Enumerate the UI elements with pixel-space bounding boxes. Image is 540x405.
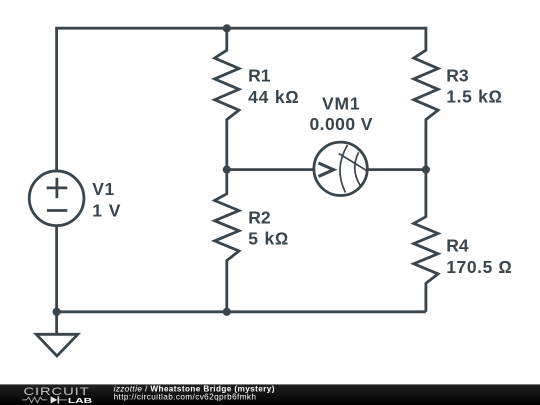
svg-text:R2: R2: [248, 208, 271, 228]
svg-text:R3: R3: [446, 65, 469, 85]
svg-text:1 V: 1 V: [92, 201, 121, 221]
svg-text:http://circuitlab.com/cv62qprb: http://circuitlab.com/cv62qprb6fmkh: [114, 393, 257, 402]
svg-text:R4: R4: [446, 236, 469, 256]
svg-text:LAB: LAB: [68, 396, 93, 405]
svg-text:VM1: VM1: [322, 94, 360, 114]
svg-text:5 kΩ: 5 kΩ: [248, 229, 289, 249]
svg-text:R1: R1: [248, 65, 271, 85]
svg-text:V1: V1: [92, 179, 114, 199]
svg-text:170.5 Ω: 170.5 Ω: [446, 257, 512, 277]
svg-text:0.000 V: 0.000 V: [309, 114, 372, 134]
svg-text:44 kΩ: 44 kΩ: [248, 87, 300, 107]
svg-text:1.5 kΩ: 1.5 kΩ: [446, 87, 503, 107]
